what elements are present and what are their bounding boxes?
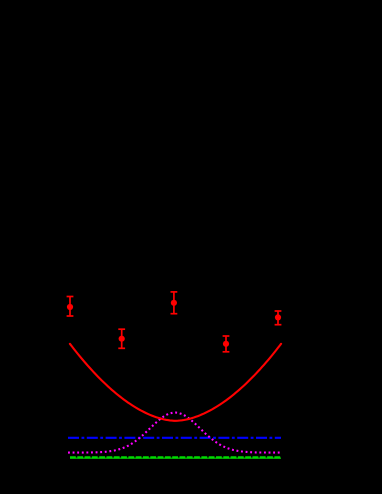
data point 2 error bar — [118, 329, 125, 348]
green solid thin underlay line — [70, 457, 281, 459]
blue dash-dot horizontal line (background component) — [68, 437, 281, 439]
data point 3 marker — [171, 300, 177, 306]
data point 4 error bar — [223, 336, 230, 352]
data point 2 marker — [119, 336, 125, 342]
data point 1 marker — [67, 304, 73, 310]
green dashed horizontal line — [70, 456, 281, 458]
red solid fit curve (parabola-like) — [70, 344, 281, 421]
data point 3 error bar — [171, 292, 178, 314]
data point 5 marker — [275, 314, 281, 320]
data point 5 error bar — [275, 311, 282, 325]
magenta dotted gaussian peak curve — [68, 413, 281, 453]
data point 4 marker — [223, 341, 229, 347]
data point 1 error bar — [67, 297, 74, 317]
